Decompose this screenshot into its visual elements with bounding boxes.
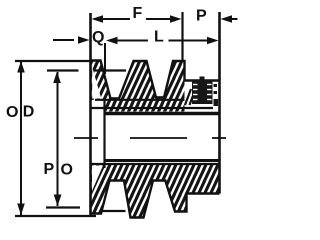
svg-text:O: O	[6, 104, 18, 121]
OD extension line bottom	[15, 215, 96, 217]
PO arrow down	[54, 195, 62, 207]
dimension P arrow tail	[230, 18, 238, 20]
white wedge left of top flange band	[92, 67, 101, 99]
dimension F left arrow	[92, 15, 104, 23]
bore bottom line	[105, 159, 220, 162]
svg-text:Q: Q	[92, 29, 104, 46]
dimension F line left segment	[101, 18, 130, 20]
right face line (also extension line for P and L)	[218, 12, 221, 194]
outline: bottom profile	[90, 181, 220, 218]
groove 1 root segment (top)	[111, 97, 120, 99]
bore centerline dash left	[74, 137, 98, 139]
disk line top	[91, 107, 214, 109]
svg-text:P: P	[196, 8, 207, 25]
OD dimension vertical line	[20, 62, 22, 215]
bore top line	[105, 112, 220, 115]
OD arrow down	[17, 204, 25, 216]
F dimension: extension line at x=182.5	[181, 12, 183, 62]
L extension line at x=105 below arrow	[104, 43, 106, 74]
L right arrow	[207, 37, 219, 45]
PO cap bottom	[46, 206, 80, 208]
OD extension line top	[15, 60, 91, 62]
thread specks right of screw	[214, 84, 218, 87]
svg-text:F: F	[133, 5, 143, 22]
svg-text:P: P	[44, 161, 55, 178]
groove root line across (top)	[95, 99, 185, 101]
dimension P outside arrow	[221, 15, 233, 23]
pitch line through groove 1 (top)	[95, 69, 126, 71]
svg-text:O: O	[61, 162, 73, 179]
PO dimension vertical line	[57, 72, 59, 206]
PO cap top	[47, 69, 79, 71]
pitch line through groove 1 (bottom)	[101, 210, 126, 212]
groove 2 root segment (top)	[156, 96, 164, 98]
PO arrow up	[53, 72, 61, 84]
bore centerline dash right	[212, 137, 226, 139]
outline: top profile	[91, 61, 220, 99]
dimension F line right segment	[146, 18, 172, 20]
sheave body top section (hatched)	[91, 61, 185, 112]
dimension Q outside arrow pointing right	[78, 36, 90, 44]
svg-text:D: D	[23, 104, 35, 121]
disk line bottom	[91, 163, 220, 165]
dimension L line left segment	[116, 40, 148, 42]
L left arrow pointing left at x=105	[106, 37, 118, 45]
hub hatch strokes left of screw	[185, 89, 196, 105]
bore centerline dash middle	[130, 137, 187, 139]
dimension L line right segment	[169, 40, 210, 42]
dimension Q left arrow tail	[53, 39, 74, 41]
set screw body	[192, 77, 213, 105]
hub left face vertical	[103, 99, 105, 168]
left face line	[89, 13, 92, 215]
dimension F right arrow	[170, 15, 182, 23]
OD arrow up	[17, 61, 25, 73]
svg-text:L: L	[154, 29, 164, 46]
white wedge left of bottom flange	[92, 166, 103, 192]
sheave body bottom section (hatched)	[90, 164, 220, 218]
